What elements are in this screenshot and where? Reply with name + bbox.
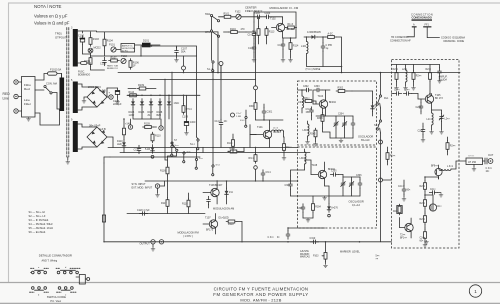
capacitor C207 [398,180,411,201]
svg-text:R117: R117 [161,202,167,205]
capacitor C104 [263,12,282,19]
amp bottom ground [424,240,428,244]
capacitor C204 [416,99,423,114]
LED D110 [117,137,126,153]
label OUTPUT [140,243,151,246]
coil L101 [301,36,308,53]
resistor R113 [265,27,275,44]
wire winding S3 to bridge2 [78,124,97,149]
svg-text:P103: P103 [313,256,319,258]
wire T102 top rail [254,12,296,38]
input terminal J4 [155,181,164,197]
input ring terminal K1 [231,112,243,118]
svg-text:SWITCH CODE: SWITCH CODE [47,295,66,299]
svg-text:C3×8: C3×8 [306,108,312,111]
capacitor C106 [248,44,256,62]
zener D112 [167,95,180,120]
label OSCILADOR 65-108 [358,135,373,143]
svg-text:R1×3: R1×3 [288,23,294,26]
svg-text:MODULACION AM: MODULACION AM [213,208,234,211]
svg-text:R304: R304 [315,207,321,209]
svg-text:BC107: BC107 [215,184,223,187]
wire R115 down [341,66,343,68]
capacitor C103 [254,12,263,19]
switch detail row B1 [30,287,49,297]
diode D115 LED [219,217,229,220]
svg-text:P1××: P1×× [390,155,396,158]
label under modulator [306,68,321,71]
zener D107 [148,99,154,117]
switch row S5a [166,144,179,157]
svg-text:AT 150: AT 150 [468,160,477,164]
wire C107 row to x196 [177,46,197,56]
svg-text:C302: C302 [303,86,309,88]
capacitor C112 [321,36,332,51]
series capacitor C310 [310,237,319,244]
note box AMPLIF HORIZONTAL [121,44,136,53]
mid column wire x213 [212,79,214,165]
svg-text:MOD. AM/FM - 212B: MOD. AM/FM - 212B [240,298,281,303]
mains switch S8 [35,82,62,110]
svg-text:L101: L101 [301,45,307,48]
resistor R103 [89,32,99,46]
svg-text:R1××: R1×× [227,142,233,145]
svg-text:R103: R103 [93,38,100,41]
trimmer cap CV3 [341,175,346,197]
coil L102 [272,127,284,132]
junction ring E [254,166,258,182]
svg-text:T2××: T2×× [400,234,406,237]
svg-text:C111: C111 [278,44,284,47]
svg-text:AJUSTE: AJUSTE [300,250,309,253]
transformer TR1 primary winding [60,74,65,112]
svg-text:CONNECTION HF: CONNECTION HF [390,39,411,42]
svg-text:S4 — FM Mod. 50Hz: S4 — FM Mod. 50Hz [29,222,54,226]
bridge rectifier D104-D105 label [89,124,106,132]
wire R302 to edge [352,90,373,92]
svg-text:Filter: Filter [24,102,31,106]
ground under filter [26,117,30,121]
RF OUT jack [483,154,494,164]
coil L302 [298,89,304,113]
coil L303 [303,121,310,144]
svg-text:L2××: L2×× [445,118,451,121]
resistor R104b [224,28,247,34]
capacitor C201 [437,65,441,84]
amp resistor ladder R209 [420,228,428,247]
resistor R306 base [303,97,316,104]
resistor R301 [249,90,257,120]
+supply rail y95.3 [127,95,200,97]
rail y147.5 [108,147,298,149]
svg-text:R118: R118 [182,203,188,206]
junction ring D [379,178,392,182]
capacitor C307 [285,176,293,196]
label CODIGO ESQUEMA [441,37,465,43]
coil L201 [402,65,408,87]
mid wire of pilot section [141,45,197,56]
capacitor C140 [215,66,229,148]
transformer TR1 secondary winding S2 [71,79,78,113]
main +B rail y72.5 [118,72,460,74]
label HF CONEXION [390,36,411,42]
svg-text:EXT. MOD. INPUT: EXT. MOD. INPUT [132,187,153,190]
svg-text:MAXIMO: MAXIMO [300,253,310,256]
resistor R113b [182,95,192,115]
resistor R202 [393,65,399,87]
svg-text:R101: R101 [224,13,230,16]
wire winding S2 to bridge [78,84,97,110]
svg-text:L2××: L2×× [402,68,408,71]
svg-text:RED: RED [3,92,11,96]
svg-text:P102: P102 [121,55,127,58]
svg-text:LED: LED [224,217,229,220]
trimmer cap CV5 [432,110,451,130]
wire R122 to bus [241,222,242,243]
wire mid to C107 [141,45,177,47]
connection legend bar [412,19,433,20]
capacitor C311 [268,228,290,239]
svg-text:P101: P101 [109,44,115,47]
svg-text:OSCILADOR: OSCILADOR [349,200,364,204]
svg-text:L 3×1: L 3×1 [447,165,454,168]
svg-text:C1××: C1×× [248,34,254,37]
trimmer pot P103 [313,241,328,268]
label PANT TUB [107,65,119,71]
bridge rectifier D102-D103 label [88,85,106,93]
svg-text:AND T. Wiring: AND T. Wiring [42,259,58,262]
svg-text:BZX: BZX [157,114,162,117]
mains label RED/LINE [3,92,11,101]
output terminal +14V [125,119,133,129]
osc2 bottom grounds [303,186,329,222]
svg-text:FM GENERATOR AND POWER SUPPLY: FM GENERATOR AND POWER SUPPLY [213,292,308,297]
svg-text:8×276: 8×276 [331,207,338,210]
vertical feed wire x165 [164,79,167,160]
wire to RF out [451,161,466,169]
top rail of pilot section [83,30,219,33]
svg-text:OUTPUT: OUTPUT [140,243,151,246]
svg-text:Line: Line [3,97,10,101]
wire pot to T102 [241,17,254,22]
neon lamp MCD2 [88,47,101,57]
svg-text:R7×4: R7×4 [186,108,192,111]
right feed wire x380 [380,73,382,242]
svg-text:S1-×: S1-× [190,143,196,146]
svg-text:C109: C109 [182,116,189,119]
svg-text:C1×7: C1×7 [236,112,242,115]
svg-text:5.1B: 5.1B [145,148,150,151]
svg-text:R104: R104 [230,28,236,31]
rail y120 above T101 [256,116,284,124]
oscillator box 2 dashed [298,147,377,228]
svg-text:C110: C110 [134,149,140,152]
svg-text:BOBINADO: BOBINADO [78,73,90,76]
resistor R104 [103,32,113,56]
svg-text:R11B: R11B [144,123,150,126]
svg-text:C 3×1: C 3×1 [486,167,493,170]
resistor R110 [151,132,161,143]
rail y157 [110,156,200,158]
svg-text:R2××: R2×× [393,210,399,213]
svg-text:(T×××) NOISE: (T×××) NOISE [306,68,321,71]
svg-text:1.5M: 1.5M [236,116,241,118]
resistor R308 [282,132,293,161]
svg-text:C304: C304 [338,114,344,116]
svg-text:S1- 4: S1- 4 [207,68,213,71]
junction node at x183 [182,56,186,70]
label below amp box [376,255,381,261]
svg-text:R113: R113 [269,31,275,34]
switch row S5b [178,151,191,164]
transformer TR1 secondary winding S3 [71,119,78,153]
svg-text:R2××: R2×× [420,218,426,221]
junction ring A [219,62,223,80]
capacitor C109 [182,95,196,135]
rail y157 left extension [104,157,110,163]
amp cap C206 [429,188,443,197]
svg-text:RL1: RL1 [384,97,389,100]
modulation rail y213.5 [127,213,205,215]
wire pilot bottoms to rail [83,54,105,70]
svg-text:R2××: R2×× [420,202,426,205]
svg-text:S1-5: S1-5 [374,124,380,127]
mains terminal J3 [14,109,22,113]
wire filter to fuse [35,74,48,81]
connection legend title [411,13,433,20]
rail y152.5 [120,152,310,154]
svg-text:1F: 1F [133,65,136,68]
svg-text:T102: T102 [270,18,276,21]
bridge ground [82,97,87,103]
svg-text:OSCILADOR: OSCILADOR [358,135,373,139]
svg-text:R2××: R2×× [416,75,422,78]
label AMPLIF SALIDA [439,76,448,82]
svg-text:F102: F102 [235,11,241,14]
resistor R109 [128,84,156,90]
capacitor C108 2200uF [107,88,122,106]
connection legend pointer left [408,27,415,36]
svg-text:C305: C305 [331,171,337,173]
switch detail caption [47,295,66,303]
svg-text:1: 1 [474,289,477,294]
amp ground row [394,86,415,90]
svg-text:10×: 10× [224,120,229,123]
svg-text:BZX: BZX [374,104,376,109]
svg-text:T108: T108 [312,164,318,167]
pilot lower rail y79.5 [150,72,256,81]
svg-text:C2××: C2×× [420,237,426,240]
capacitor C113 [248,22,256,44]
svg-text:1/2W: 1/2W [129,114,135,117]
transformer TR1 secondary winding S1 [71,27,78,67]
svg-text:Red: Red [24,87,30,91]
svg-text:L303: L303 [303,130,309,132]
svg-text:C105: C105 [100,63,106,66]
label SYN INPUT [132,183,153,190]
svg-text:MODULADOR FI - FM: MODULADOR FI - FM [270,6,299,10]
resistor R201 outside box [386,147,396,165]
svg-text:60×: 60× [407,189,412,192]
svg-text:( 1 KHz ): ( 1 KHz ) [183,235,193,238]
amp mid grounds [429,130,443,134]
attenuator ground [472,165,476,172]
trimmer cap CV1 [334,116,339,138]
title block text [213,286,308,302]
diode block D101 [135,40,161,48]
svg-text:R110: R110 [129,91,135,94]
svg-text:R301: R301 [249,105,255,108]
trimmer cap CV2 [342,116,347,138]
svg-text:R1××: R1×× [286,146,292,149]
svg-text:C303: C303 [314,86,320,88]
transistor T105 [418,93,443,110]
switch S2b [205,30,220,37]
note text block [34,4,70,26]
svg-text:S2 — SG + LF: S2 — SG + LF [29,214,46,218]
rail y181 [145,180,298,182]
svg-text:BF494: BF494 [329,102,336,104]
attenuator box AT [466,155,483,165]
svg-text:OUT: OUT [488,154,494,157]
wire switches vertical [211,17,213,61]
transformer core ground [66,157,70,164]
output bus ground [151,244,155,251]
switch row S5d [207,164,220,177]
svg-text:FUSС.: FUSС. [78,72,85,74]
amp resistor ladder R206 [420,177,427,195]
resistor R117 [161,181,169,214]
output terminal J5 [151,240,155,244]
wire amp internals [424,176,438,211]
label MARKER LEVEL [340,251,360,254]
svg-text:T107: T107 [205,217,211,220]
trimmer P102 [121,55,128,64]
svg-text:R114: R114 [293,45,299,48]
output terminal +T1 [107,91,113,100]
output terminal J6 [159,240,163,244]
diode D308 [327,186,338,217]
label OSCILADOR 0.1-1.2 [349,200,364,208]
amp top rail [392,64,440,66]
svg-text:BF 173: BF 173 [435,97,443,100]
amp input caps C202 C203 [392,89,419,96]
transistor T106 [203,181,223,204]
svg-text:C120 4,7μF: C120 4,7μF [137,209,150,212]
svg-text:L1×2: L1×2 [273,127,279,130]
resistor R203 [412,65,422,87]
trimmer P101 [109,44,121,53]
resistor R110b in series [128,91,139,97]
label C3x1 [486,167,493,173]
wire T101 collector to box [250,135,256,148]
vertical feed wire x172 [171,72,172,146]
capacitor C105 [100,57,106,65]
svg-text:S3 — IF FM Mod.: S3 — IF FM Mod. [29,218,50,222]
svg-text:CIRCUITO FM Y FUENTE ALIMENTAC: CIRCUITO FM Y FUENTE ALIMENTACION [214,286,309,291]
switch detail wafer box [76,275,90,285]
svg-text:S1-2: S1-2 [240,120,245,122]
varactor D111 label [307,31,321,34]
diode D301 box edge [371,91,376,116]
wire zener bottoms [133,107,160,119]
svg-text:R3××: R3×× [304,97,310,100]
resistor R115b collector [285,23,297,29]
svg-text:R116: R116 [160,170,166,173]
FET Q201 [431,165,442,180]
svg-text:65÷110: 65÷110 [361,138,370,142]
svg-text:BURNCCO: BURNCCO [107,68,118,70]
amplifier dashed box [392,60,460,249]
transistor T101 [256,124,281,148]
capacitor C305 [330,171,343,177]
label MODULACION AM [213,208,234,211]
svg-text:R122: R122 [228,223,234,226]
svg-text:BB105: BB105 [314,31,322,34]
switch row S5c [191,157,204,170]
svg-text:C2××: C2×× [416,106,422,109]
wire winding S1 top to rail [78,31,83,33]
switch S7 [169,139,180,152]
resistor R307 [310,128,318,146]
svg-text:50A: 50A [181,51,186,54]
transistor T201 [400,218,414,240]
capacitor C107 [174,46,187,62]
capacitor C306 [356,175,362,196]
bridge rectifier D104-D105 [87,127,107,147]
relay switch RL1 [374,95,389,108]
capacitor C111 [278,38,286,62]
resistor R101 [219,13,233,19]
junction ring B [254,79,258,90]
output bus y242 [104,241,392,243]
coil L203 [439,165,454,171]
switch S2a [205,13,220,22]
svg-text:S1 — SG + HI: S1 — SG + HI [29,210,46,214]
svg-text:NOTA / NOTE: NOTA / NOTE [34,4,62,9]
pot F102 [233,11,241,20]
resistor R112 [252,17,260,44]
svg-text:BF9××: BF9×× [431,165,439,168]
label MODULADOR FI-FM [270,6,299,10]
mains terminal J2 [14,94,22,98]
svg-text:R109: R109 [138,84,145,87]
bridge2 output wire [107,137,113,148]
capacitor C205 [418,123,426,142]
svg-text:40 Pix: 40 Pix [122,50,129,52]
svg-text:R110: R110 [155,135,161,138]
diode D114 [225,180,234,204]
resistor R118 [182,193,190,214]
amp resistor ladder R208 [420,212,427,228]
bridge rectifier D102-D103 [87,87,107,107]
svg-text:Z1×: Z1× [229,191,234,194]
svg-text:T101: T101 [257,126,263,129]
svg-text:MARCAS: MARCAS [300,256,310,259]
svg-text:R2××: R2×× [450,145,456,148]
svg-text:×7×××: ×7××× [468,155,475,158]
switch S6 [374,120,384,133]
svg-text:R302: R302 [338,88,344,90]
svg-text:C 3××: C 3×× [268,236,275,239]
svg-text:1N4×: 1N4× [174,102,180,105]
resistor R305 [249,147,258,164]
capacitor C313 [306,107,314,120]
resistor R111 [123,118,126,137]
svg-text:R2××: R2×× [426,68,432,71]
capacitor C102 [78,35,85,55]
svg-text:C1××: C1×× [248,47,254,50]
